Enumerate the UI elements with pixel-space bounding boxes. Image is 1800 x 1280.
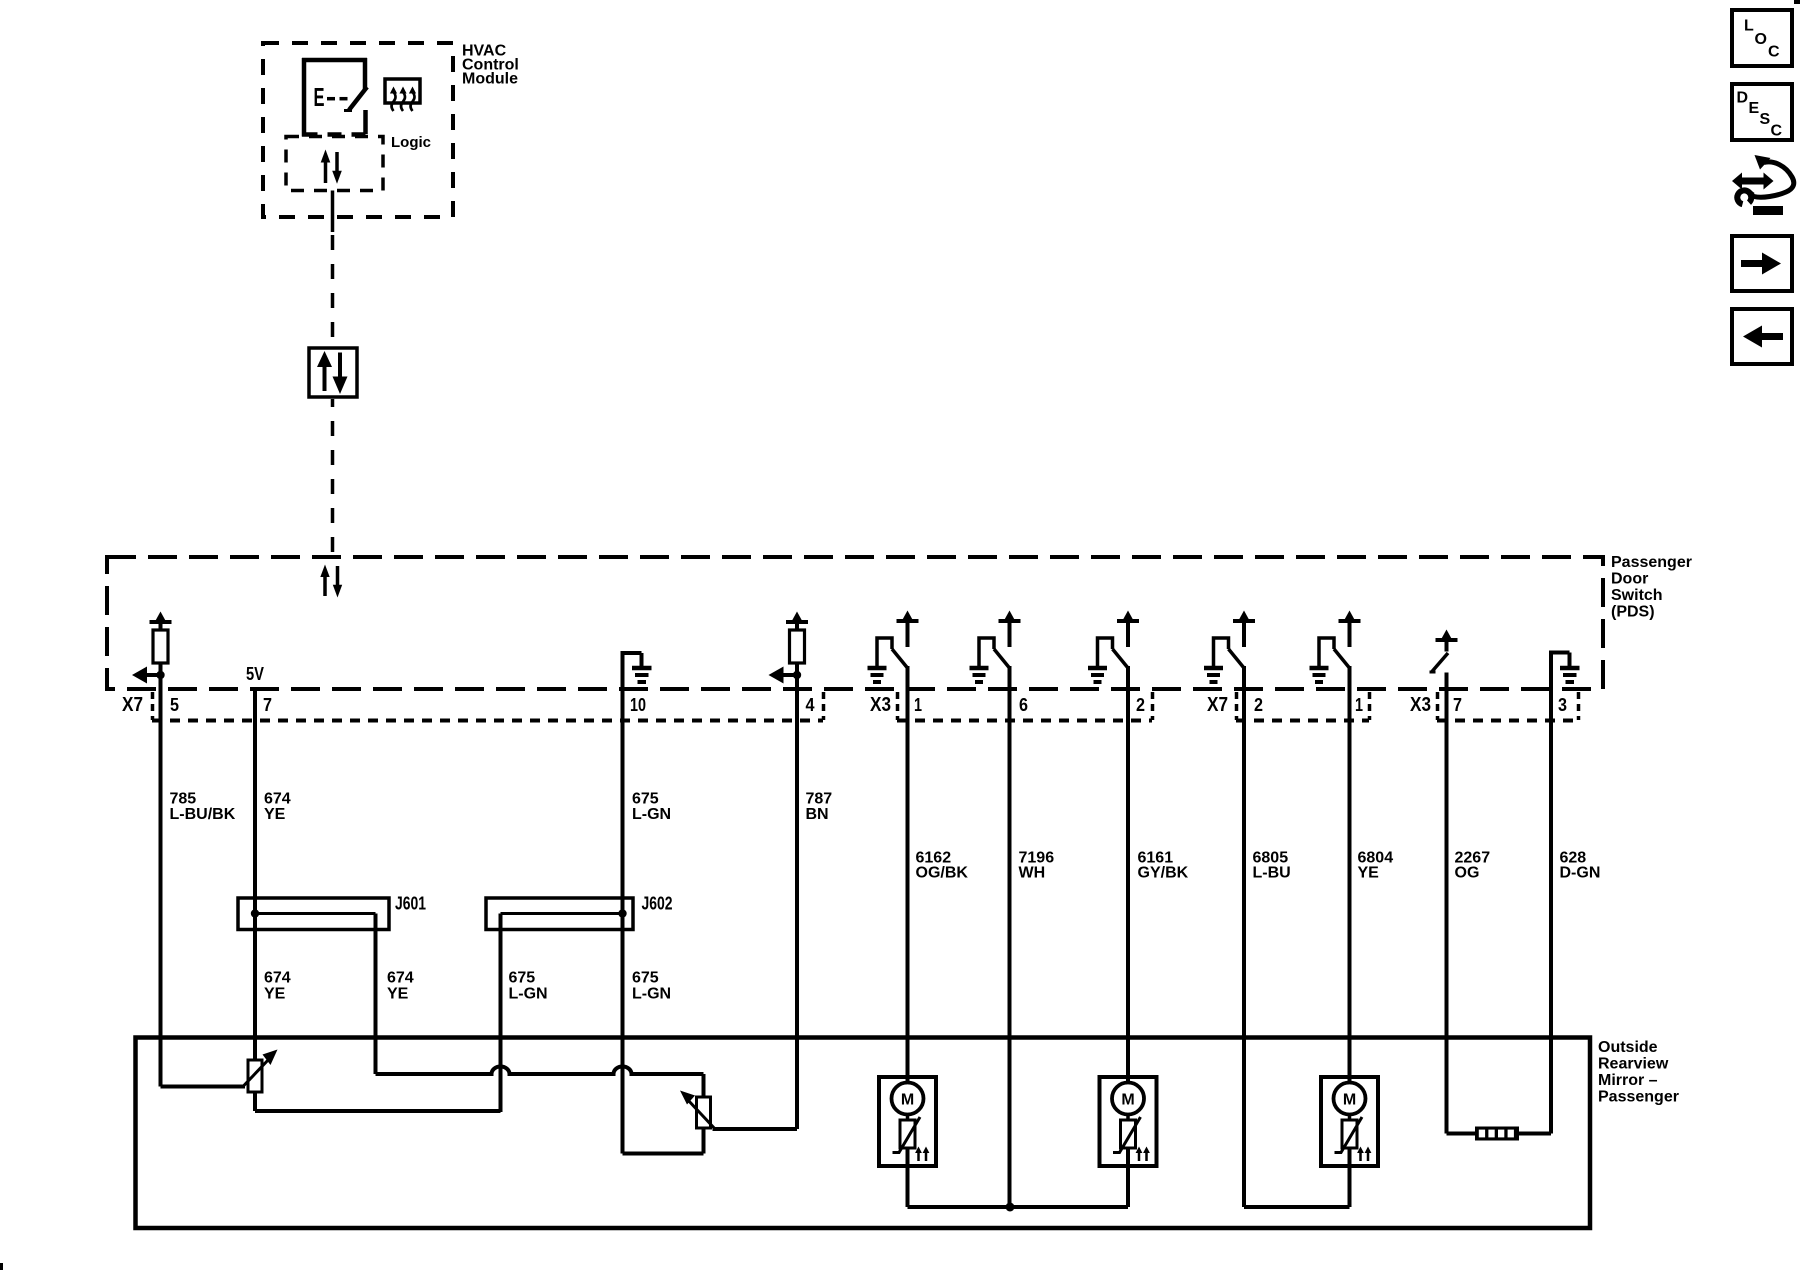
svg-text:2: 2 — [1136, 695, 1145, 715]
svg-text:C: C — [1771, 123, 1783, 140]
svg-text:Module: Module — [462, 71, 518, 88]
svg-text:3: 3 — [1558, 695, 1567, 715]
svg-text:YE: YE — [387, 986, 409, 1003]
svg-text:J602: J602 — [642, 894, 673, 914]
svg-text:674: 674 — [264, 791, 291, 808]
svg-text:M: M — [901, 1092, 914, 1109]
svg-text:5V: 5V — [246, 664, 264, 684]
svg-text:Passenger: Passenger — [1598, 1089, 1679, 1106]
svg-text:Door: Door — [1611, 571, 1648, 588]
svg-text:Rearview: Rearview — [1598, 1056, 1669, 1073]
svg-text:M: M — [1121, 1092, 1134, 1109]
svg-text:Switch: Switch — [1611, 587, 1663, 604]
svg-text:OG: OG — [1455, 865, 1480, 882]
svg-text:D: D — [1737, 90, 1749, 107]
svg-text:C: C — [1768, 44, 1780, 61]
svg-text:Outside: Outside — [1598, 1039, 1658, 1056]
svg-text:L-GN: L-GN — [509, 986, 548, 1003]
svg-text:6: 6 — [1019, 695, 1028, 715]
svg-text:S: S — [1760, 111, 1771, 128]
svg-text:X7: X7 — [1207, 694, 1228, 716]
svg-text:BN: BN — [806, 806, 829, 823]
svg-text:675: 675 — [509, 970, 536, 987]
svg-text:M: M — [1343, 1092, 1356, 1109]
svg-text:785: 785 — [170, 791, 197, 808]
svg-text:YE: YE — [1358, 865, 1380, 882]
svg-text:787: 787 — [806, 791, 833, 808]
svg-text:L-BU/BK: L-BU/BK — [170, 806, 236, 823]
svg-text:675: 675 — [632, 970, 659, 987]
svg-text:L-BU: L-BU — [1253, 865, 1291, 882]
svg-text:X3: X3 — [1410, 694, 1431, 716]
svg-text:Passenger: Passenger — [1611, 554, 1692, 571]
svg-text:2: 2 — [1254, 695, 1263, 715]
svg-text:O: O — [1755, 31, 1767, 48]
svg-text:E: E — [314, 82, 325, 112]
svg-text:7: 7 — [263, 695, 272, 715]
svg-text:L-GN: L-GN — [632, 806, 671, 823]
svg-text:Logic: Logic — [391, 134, 431, 151]
svg-text:X3: X3 — [870, 694, 891, 716]
svg-text:674: 674 — [264, 970, 291, 987]
svg-text:E: E — [1749, 100, 1760, 117]
svg-text:1: 1 — [914, 695, 922, 715]
svg-text:YE: YE — [264, 806, 286, 823]
svg-text:GY/BK: GY/BK — [1138, 865, 1189, 882]
svg-text:Mirror –: Mirror – — [1598, 1072, 1658, 1089]
svg-text:4: 4 — [806, 695, 815, 715]
svg-text:7: 7 — [1453, 695, 1462, 715]
svg-text:WH: WH — [1019, 865, 1046, 882]
svg-text:(PDS): (PDS) — [1611, 604, 1655, 621]
svg-text:5: 5 — [170, 695, 179, 715]
svg-text:L-GN: L-GN — [632, 986, 671, 1003]
svg-text:D-GN: D-GN — [1560, 865, 1601, 882]
svg-text:10: 10 — [630, 695, 646, 715]
svg-text:L: L — [1744, 18, 1754, 35]
svg-text:675: 675 — [632, 791, 659, 808]
svg-text:1: 1 — [1355, 695, 1363, 715]
svg-text:X7: X7 — [122, 694, 143, 716]
svg-text:OG/BK: OG/BK — [916, 865, 969, 882]
svg-text:674: 674 — [387, 970, 414, 987]
svg-text:J601: J601 — [395, 894, 426, 914]
svg-text:YE: YE — [264, 986, 286, 1003]
